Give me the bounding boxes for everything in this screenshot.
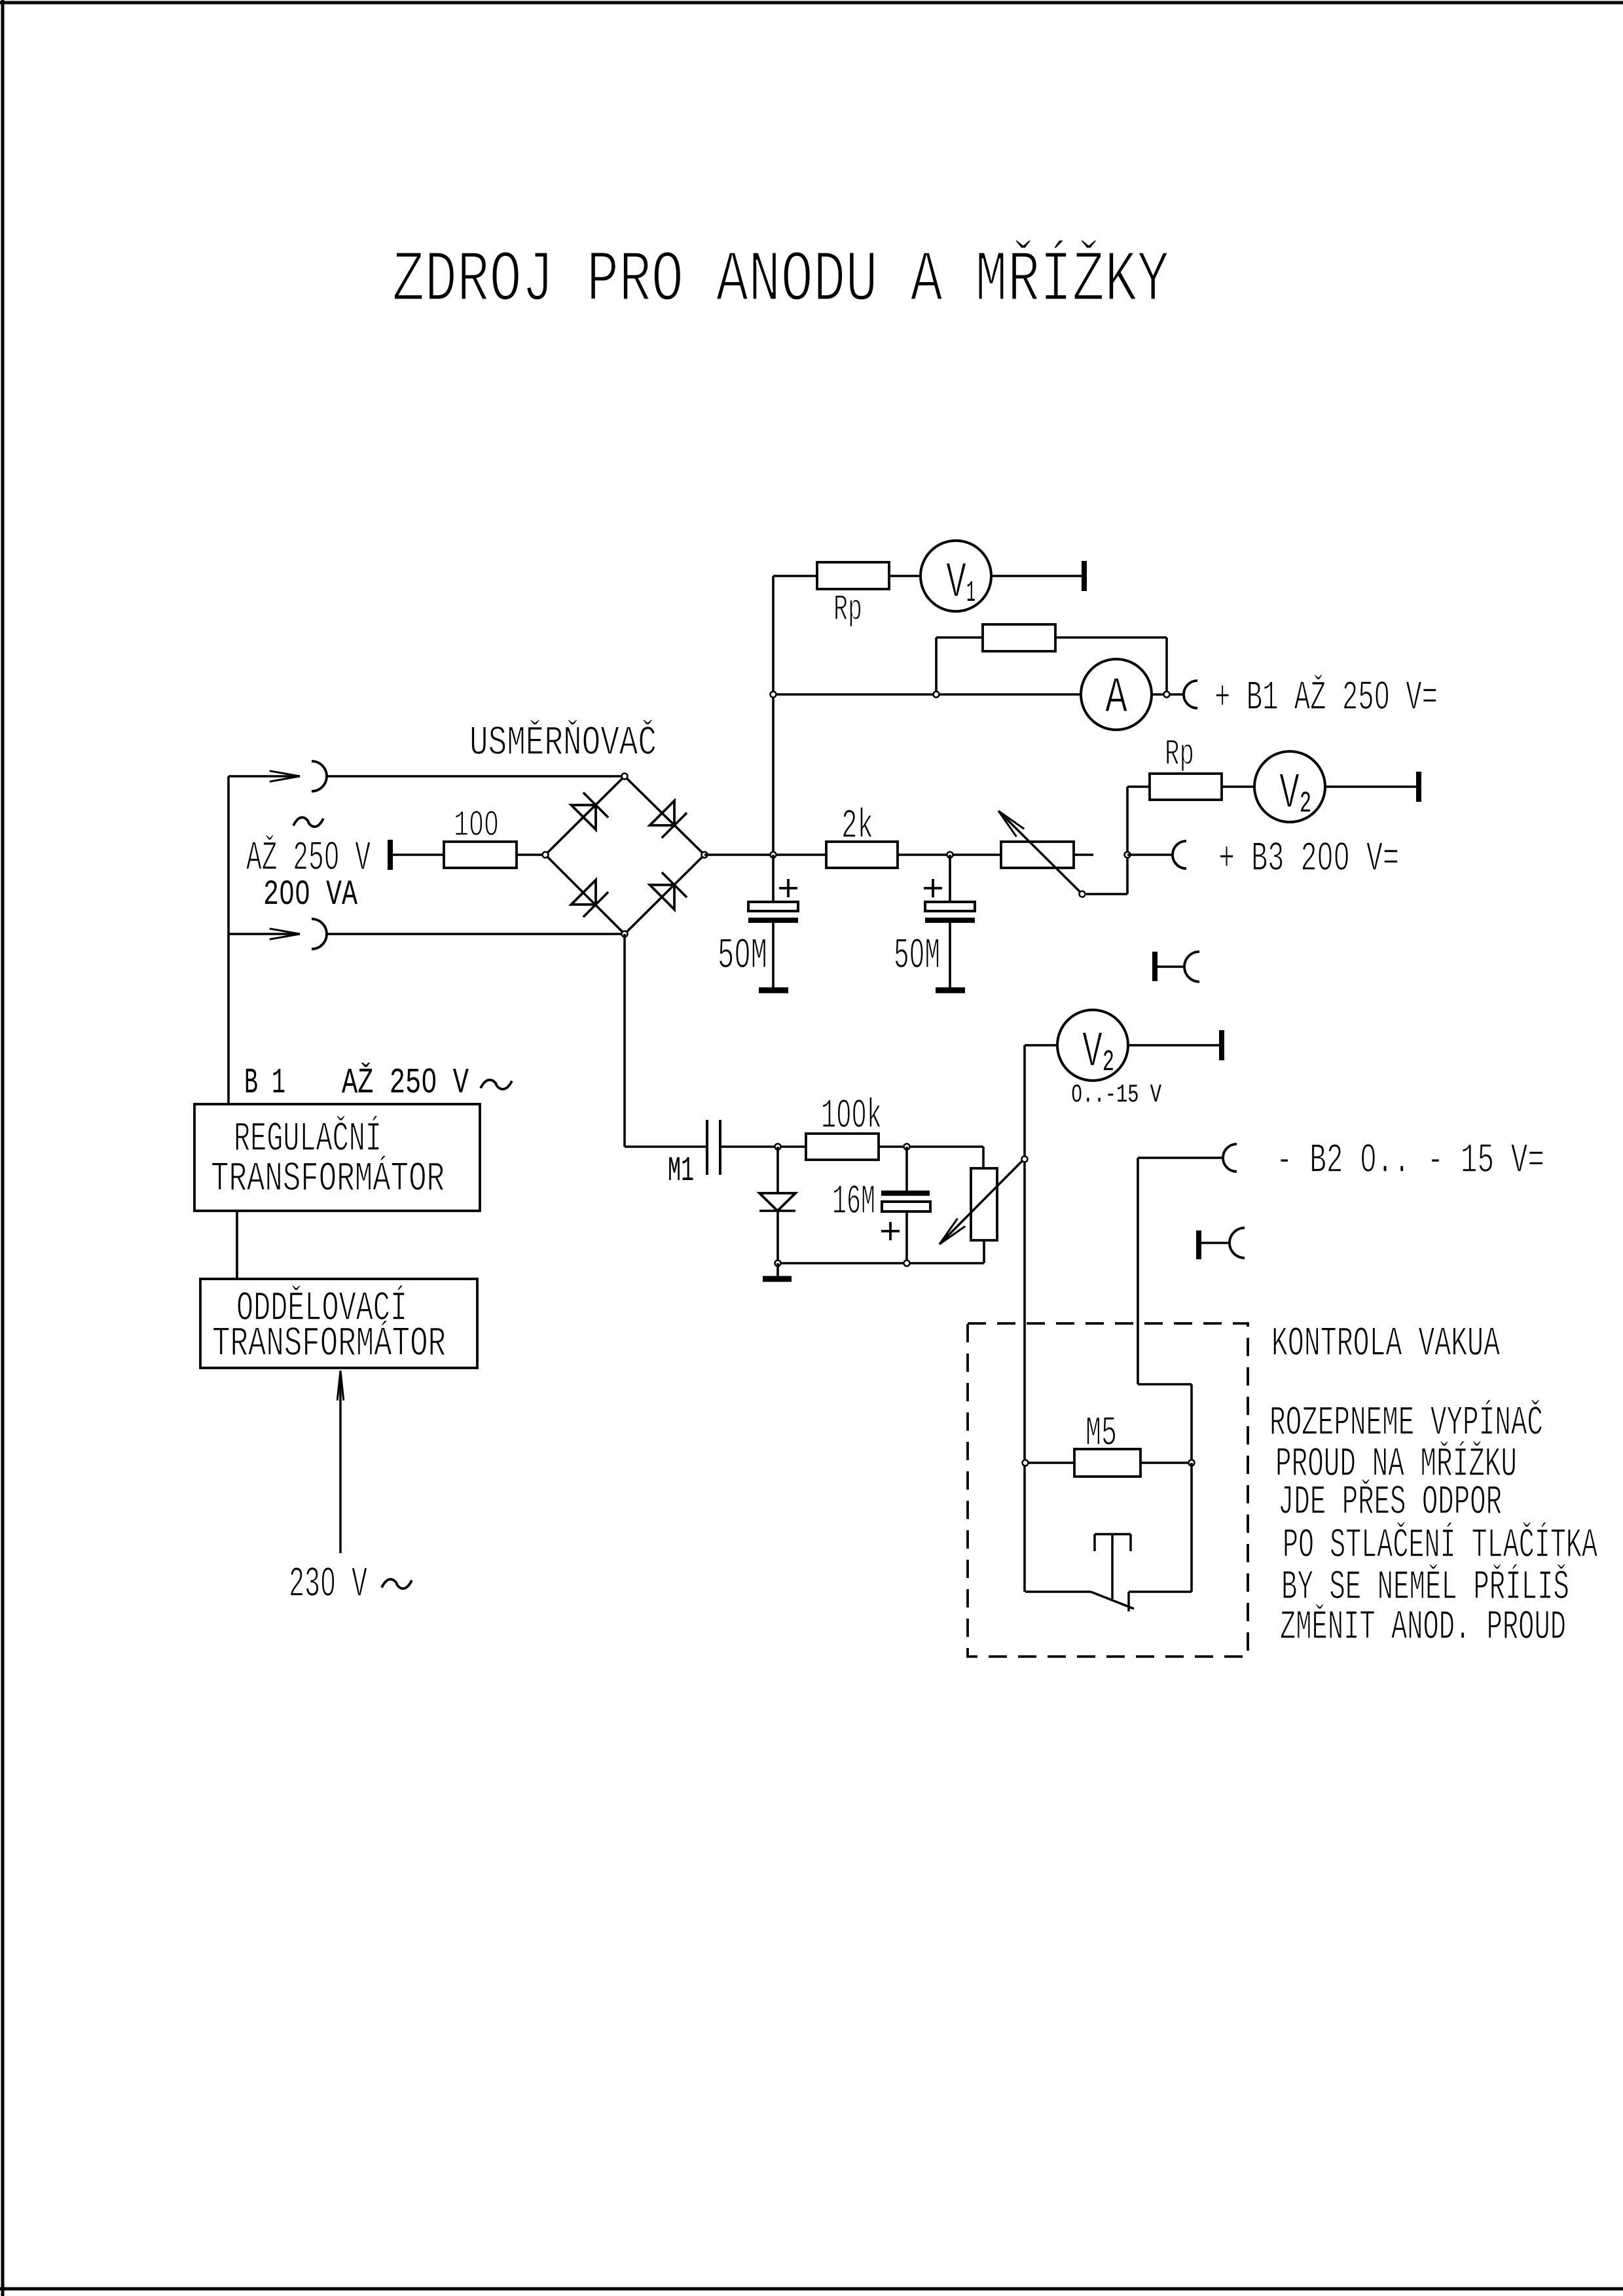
wire B1 rail <box>773 693 1081 696</box>
voltmeter V2 (B3) <box>1254 751 1325 822</box>
wire bottom input horizontal-left <box>228 933 300 935</box>
svg-text:M5: M5 <box>1085 1410 1117 1457</box>
tilde after 230 V <box>382 1579 412 1588</box>
junction node B3 <box>1125 852 1131 858</box>
connector socket B3 <box>1173 841 1186 869</box>
svg-text:V: V <box>1082 1024 1103 1081</box>
wire B3 riser vertical <box>1126 787 1129 894</box>
label 50M-2 <box>894 931 940 980</box>
wire M5 left <box>1025 1462 1074 1464</box>
junction node bridge bottom <box>622 931 628 937</box>
note line 4 <box>1283 1522 1597 1569</box>
ground bias <box>763 1276 792 1282</box>
wire cap 50M-1 bottom <box>772 922 775 990</box>
junction node diode top <box>775 1144 781 1150</box>
label 50M-1 <box>718 931 767 980</box>
wire bridge arm bottom-right <box>625 855 704 934</box>
label + B3 200 V= <box>1218 836 1399 882</box>
terminal pair upper wire <box>1158 965 1185 968</box>
wire V2b left <box>1025 1044 1057 1047</box>
wire resistor 100 to bridge left node <box>517 853 545 856</box>
wire bottom input to bridge bottom node <box>327 933 625 935</box>
rheostat arrow head <box>998 811 1024 836</box>
rheostat body (B3 adjust) <box>1001 842 1074 868</box>
wire Rp2 to V2 <box>1222 785 1254 788</box>
arrow into bottom input connector <box>270 929 300 939</box>
svg-text:V: V <box>946 555 966 612</box>
junction node pot wiper <box>1022 1157 1028 1162</box>
capacitor 50M-1 plates <box>748 902 798 923</box>
label 16M <box>832 1179 875 1225</box>
wire bridge arm top-right <box>625 776 704 855</box>
label 200 VA <box>263 875 357 915</box>
diode D1 (bridge top-left) <box>572 793 609 830</box>
svg-text:200 VA: 200 VA <box>263 875 357 915</box>
label V1 <box>946 555 976 612</box>
svg-text:- B2 0.. - 15 V=: - B2 0.. - 15 V= <box>1276 1138 1544 1184</box>
wire top input horizontal-left <box>228 775 300 778</box>
wire bridge right node to 2k <box>704 853 826 856</box>
ground cap 50M-1 <box>759 988 788 994</box>
ground cap 50M-2 <box>936 988 965 994</box>
label ODDĚLOVACÍ <box>236 1285 407 1332</box>
tilde after B1 250V <box>481 1080 512 1089</box>
svg-text:0..-15 V: 0..-15 V <box>1071 1081 1161 1109</box>
wire Rp to V1 <box>889 575 921 577</box>
junction node 16M top <box>904 1144 910 1150</box>
junction node bridge left <box>543 852 549 858</box>
pot arrow head <box>939 1219 965 1244</box>
junction node rail-V1 <box>771 852 776 858</box>
wire switch rail right <box>1129 1590 1192 1593</box>
wire 2k to rheostat <box>898 853 1001 856</box>
capacitor 50M-2 plates <box>925 902 975 923</box>
svg-text:2: 2 <box>1300 787 1311 821</box>
terminal pair upper bar <box>1152 952 1158 981</box>
label TRANSFORMÁTOR (2) <box>212 1320 446 1367</box>
terminal bar V2 (B3) <box>1416 772 1421 802</box>
label 230 V <box>289 1560 367 1609</box>
rheostat arrow shaft <box>998 811 1082 894</box>
wire 230V supply arrow shaft <box>339 1372 342 1553</box>
wire bridge arm left-bottom <box>545 855 625 934</box>
label 0..-15 V <box>1071 1081 1161 1109</box>
svg-text:V: V <box>1279 766 1300 823</box>
junction node rheostat wiper <box>1080 891 1085 897</box>
pot arrow shaft <box>939 1159 1024 1244</box>
resistor 100 <box>444 842 517 868</box>
label REGULAČNÍ <box>234 1115 382 1162</box>
box REGULAČNÍ TRANSFORMÁTOR <box>194 1104 480 1211</box>
svg-text:Rp: Rp <box>1165 733 1194 775</box>
wire bridge bottom to M1 row <box>625 934 707 1147</box>
wire A to B1 connector <box>1152 693 1184 696</box>
svg-text:A: A <box>1105 670 1128 727</box>
label 100k <box>821 1093 882 1139</box>
label V2 (bias) <box>1082 1024 1114 1081</box>
arrow into top input connector <box>270 771 300 781</box>
wire shunt branch left vertical <box>935 637 938 694</box>
wire M1 to 100k <box>720 1145 806 1148</box>
wire bias bottom rail <box>778 1262 984 1265</box>
svg-text:100k: 100k <box>821 1093 882 1139</box>
ammeter A <box>1081 659 1152 730</box>
push button right contact stub <box>1127 1592 1130 1611</box>
label + B1 AŽ 250 V= <box>1214 674 1438 721</box>
note line 2 <box>1275 1441 1517 1488</box>
junction node bridge top <box>622 774 628 780</box>
svg-text:16M: 16M <box>832 1179 875 1225</box>
svg-text:ZMĚNIT ANOD. PROUD: ZMĚNIT ANOD. PROUD <box>1280 1604 1566 1651</box>
svg-text:2k: 2k <box>841 803 873 850</box>
connector bottom input socket <box>312 919 327 949</box>
svg-text:M1: M1 <box>668 1151 694 1191</box>
svg-text:+ B1 AŽ 250 V=: + B1 AŽ 250 V= <box>1214 674 1438 721</box>
push button actuator <box>1095 1534 1131 1599</box>
svg-text:B 1: B 1 <box>244 1062 285 1103</box>
plus sign cap 50M-1 <box>779 879 797 897</box>
connector top input socket <box>312 761 327 791</box>
label 100 <box>454 804 499 846</box>
wire B2 step <box>1138 1384 1192 1463</box>
border frame left <box>1 0 5 2296</box>
wire shunt right vertical <box>1165 637 1168 694</box>
box ODDĚLOVACÍ TRANSFORMÁTOR <box>200 1279 477 1368</box>
plus sign cap 16M <box>881 1222 900 1240</box>
wire cap 50M-1 top <box>772 855 775 902</box>
wire top input to bridge top node <box>327 775 625 778</box>
wire down to pot top <box>982 1147 985 1168</box>
wire wiper to B3 riser <box>1086 893 1127 895</box>
wire M5 right <box>1140 1462 1192 1464</box>
resistor 2k <box>826 842 898 868</box>
wire left vertical bus <box>227 776 230 1104</box>
resistor Rp (V2 series) <box>1150 774 1222 800</box>
voltmeter V2 (bias) <box>1057 1010 1128 1081</box>
junction node B1 rail left <box>771 692 776 698</box>
junction node A output <box>1164 692 1170 698</box>
label M5 <box>1085 1410 1117 1457</box>
wire wiper bus vertical <box>1023 1045 1026 1592</box>
label AŽ 250 V <box>246 834 371 882</box>
junction node diode bottom <box>775 1261 781 1266</box>
resistor M5 <box>1074 1449 1140 1477</box>
svg-text:+ B3 200 V=: + B3 200 V= <box>1218 836 1399 882</box>
label TRANSFORMÁTOR (1) <box>211 1155 445 1202</box>
svg-text:USMĚRŇOVAČ: USMĚRŇOVAČ <box>469 719 657 766</box>
svg-text:PO STLAČENÍ TLAČÍTKA: PO STLAČENÍ TLAČÍTKA <box>1283 1522 1597 1569</box>
svg-text:ZDROJ PRO ANODU A MŘÍŽKY: ZDROJ PRO ANODU A MŘÍŽKY <box>392 240 1169 322</box>
capacitor 16M <box>881 1147 930 1263</box>
terminal bar input <box>388 840 393 870</box>
plus sign cap 50M-2 <box>924 879 942 897</box>
terminal bar V2 (bias) <box>1219 1030 1224 1060</box>
wire 100k to pot <box>879 1145 983 1148</box>
svg-text:1: 1 <box>966 577 976 610</box>
svg-text:JDE PŘES ODPOR: JDE PŘES ODPOR <box>1278 1479 1502 1526</box>
wire rheostat right stub <box>1074 853 1093 856</box>
resistor shunt (A meter) <box>983 624 1055 651</box>
wire shunt right horizontal <box>1055 636 1167 639</box>
wire to B3 connector <box>1127 853 1173 856</box>
capacitor M1 <box>707 1120 720 1175</box>
terminal pair upper socket <box>1184 952 1199 982</box>
wire V2b to terminal <box>1128 1044 1222 1047</box>
connector socket B2 <box>1223 1144 1237 1172</box>
wire vertical to V1 branch <box>772 576 775 855</box>
wire B2 vertical into box <box>1137 1158 1139 1384</box>
label M1 <box>668 1151 694 1191</box>
note line 1 <box>1269 1399 1543 1446</box>
push button NC contact blade <box>1091 1592 1134 1609</box>
note line 6 <box>1280 1604 1566 1651</box>
title text <box>392 240 1169 322</box>
svg-text:Rp: Rp <box>833 588 862 630</box>
wire pot bottom <box>983 1240 985 1263</box>
note line 3 <box>1278 1479 1502 1526</box>
label KONTROLA VAKUA <box>1271 1321 1500 1367</box>
label Rp (V2) <box>1165 733 1194 775</box>
wire diode to ground <box>776 1263 779 1278</box>
wire cap 50M-2 top <box>949 855 951 902</box>
svg-text:2: 2 <box>1103 1046 1114 1079</box>
border frame bottom <box>0 2287 1623 2291</box>
wire cap 50M-2 bottom <box>949 922 951 990</box>
label A <box>1105 670 1128 727</box>
wire V1 to terminal <box>991 575 1084 577</box>
svg-text:TRANSFORMÁTOR: TRANSFORMÁTOR <box>211 1155 445 1202</box>
diode D5 (grid clamp) <box>759 1147 795 1263</box>
wire terminal to resistor 100 <box>393 853 444 856</box>
junction node M5 right <box>1189 1460 1195 1466</box>
label 2k <box>841 803 873 850</box>
wire switch rail left <box>1025 1590 1091 1593</box>
junction node M5 left <box>1023 1460 1029 1466</box>
diode D3 (bridge bottom-left) <box>572 880 609 918</box>
junction node bridge right <box>702 852 708 858</box>
arrow 230V supply head <box>337 1371 344 1401</box>
wire M5 right vertical down <box>1190 1463 1193 1592</box>
wire B2 horizontal <box>1138 1157 1223 1159</box>
resistor 100k <box>806 1134 879 1160</box>
label Rp (V1) <box>833 588 862 630</box>
border frame top <box>0 1 1623 5</box>
connector socket B1 <box>1184 681 1197 708</box>
wire shunt left horizontal <box>936 636 983 639</box>
terminal bar V1 <box>1082 561 1087 591</box>
dashed box KONTROLA VAKUA <box>968 1323 1248 1657</box>
diode D2 (bridge top-right) <box>650 801 687 838</box>
svg-text:AŽ 250 V: AŽ 250 V <box>342 1062 469 1103</box>
wire between transformer boxes <box>236 1211 238 1279</box>
diode D4 (bridge bottom-right) <box>650 872 687 910</box>
terminal pair lower socket <box>1230 1228 1245 1258</box>
tilde above AŽ 250 V <box>293 817 323 827</box>
svg-text:TRANSFORMÁTOR: TRANSFORMÁTOR <box>212 1320 446 1367</box>
junction node filter mid <box>947 852 953 858</box>
terminal pair lower bar <box>1196 1230 1201 1259</box>
terminal pair lower wire <box>1201 1242 1230 1244</box>
resistor Rp (V1 series) <box>817 562 889 589</box>
wire V1 branch horizontal <box>773 575 817 577</box>
junction node 16M bottom <box>904 1261 910 1266</box>
voltmeter V1 <box>921 541 991 611</box>
note line 5 <box>1281 1564 1569 1611</box>
svg-text:ROZEPNEME VYPÍNAČ: ROZEPNEME VYPÍNAČ <box>1269 1399 1543 1446</box>
label B 1 AŽ 250 V <box>244 1062 469 1103</box>
junction node shunt left <box>934 692 939 698</box>
wire bridge arm left-top <box>545 776 625 855</box>
wire V2 to terminal <box>1325 785 1419 788</box>
label V2 (B3) <box>1279 766 1311 823</box>
potentiometer (grid bias) <box>971 1168 997 1240</box>
svg-text:KONTROLA VAKUA: KONTROLA VAKUA <box>1271 1321 1500 1367</box>
label - B2 0.. - 15 V= <box>1276 1138 1544 1184</box>
label USMĚRŇOVAČ <box>469 719 657 766</box>
wire Rp2 branch horizontal <box>1127 785 1150 788</box>
